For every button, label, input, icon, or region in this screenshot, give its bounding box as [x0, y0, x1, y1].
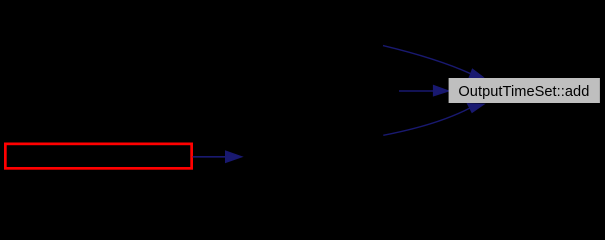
- svg-text:OutputTimeSet::add: OutputTimeSet::add: [458, 84, 589, 100]
- edge: top hidden caller to OutputTimeSet::add: [383, 46, 471, 74]
- node OutputTimeSet::add (gray current node): [449, 78, 600, 103]
- arrowhead: bottom edge: [467, 104, 484, 113]
- edge: middle hidden caller to OutputTimeSet::add (wire): [399, 90, 435, 92]
- arrowhead: middle edge: [433, 85, 449, 96]
- edge: red node to hidden middle node (wire): [193, 156, 227, 158]
- arrowhead: red node edge: [226, 151, 243, 163]
- node: truncated caller (red box, hidden label): [5, 144, 191, 169]
- arrowhead: top edge: [469, 69, 484, 78]
- edge: bottom hidden caller to OutputTimeSet::add: [383, 108, 469, 135]
